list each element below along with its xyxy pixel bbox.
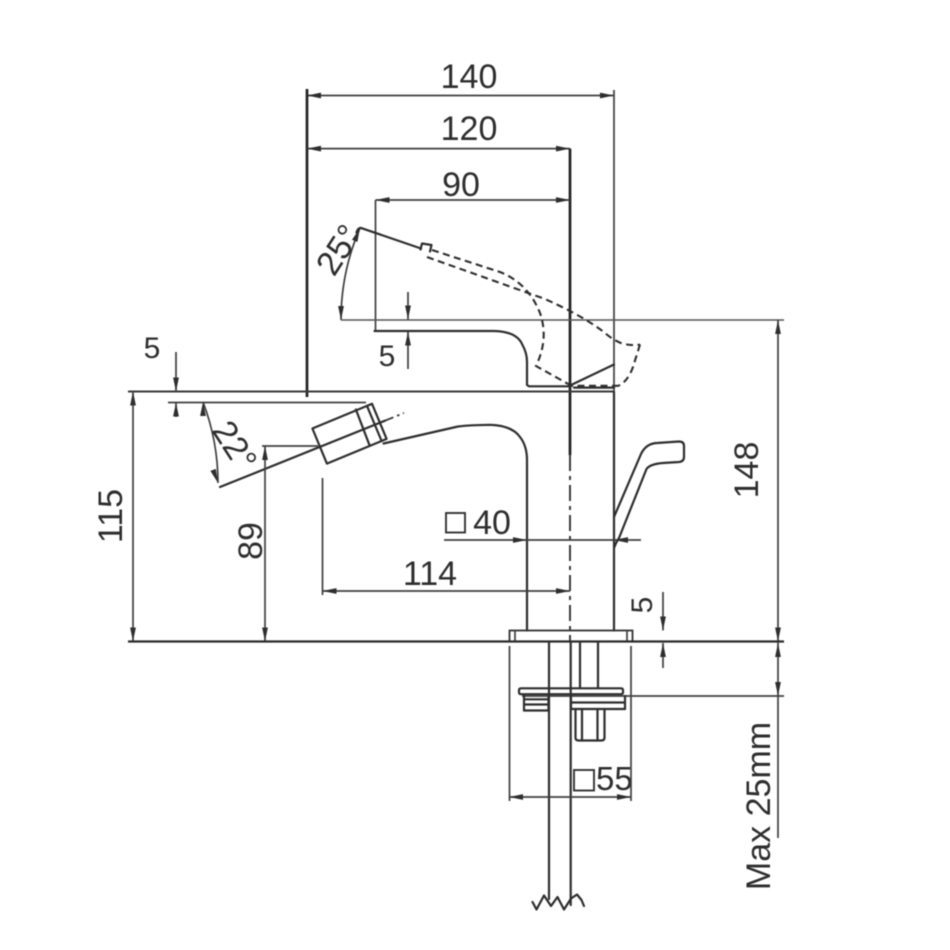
square 40 label	[444, 504, 641, 543]
spout axis leg line (22 deg)	[220, 421, 385, 487]
svg-text:90: 90	[442, 166, 480, 204]
threaded stud left	[579, 642, 581, 688]
dimension Max 25mm	[740, 642, 781, 890]
svg-text:89: 89	[232, 522, 270, 560]
supply shank pipe right edge	[570, 642, 572, 905]
dimension 89	[232, 446, 270, 642]
dimension 90	[376, 166, 571, 204]
aerator body (tilted box)	[312, 404, 386, 464]
svg-text:Max 25mm: Max 25mm	[740, 722, 778, 890]
lever raised end face (dashed)	[619, 345, 640, 386]
aerator cap seam	[356, 410, 370, 446]
svg-text:148: 148	[728, 442, 766, 499]
svg-text:114: 114	[403, 555, 457, 593]
extension line y=446 (89 reference)	[262, 445, 318, 447]
pipe break squiggle	[533, 895, 585, 910]
deck / mounting surface line	[128, 640, 784, 642]
dimension 115	[92, 392, 136, 642]
body right edge (lower view)	[613, 392, 615, 631]
lever handle top edge (solid, rest position)	[357, 228, 422, 249]
horseshoe washer	[519, 688, 623, 694]
lever button notch	[421, 244, 432, 252]
square 55 label	[574, 760, 633, 797]
svg-text:40: 40	[473, 504, 511, 542]
svg-text:5: 5	[379, 340, 396, 373]
extension line lever tip (x=375.5)	[375, 200, 377, 331]
extension line left (aerator tip reference x=307)	[306, 89, 309, 397]
lever raised bottom line (dashed)	[568, 385, 619, 387]
reference line y=320 (spout height 148 reference)	[341, 319, 784, 321]
extension line centerline top (x=570)	[569, 149, 572, 455]
mounting nut	[576, 709, 605, 741]
lever solid bottom profile (flat blade and corner into body)	[375, 331, 571, 386]
body top edge right segment	[574, 387, 614, 389]
dimension 148	[728, 320, 781, 642]
svg-text:5: 5	[626, 597, 659, 614]
supply shank pipe left edge	[548, 642, 550, 899]
angle dimension 25 deg arc	[309, 218, 369, 320]
centerline (dash-dot) of faucet body	[569, 455, 571, 642]
bidet spout top profile into body left edge	[384, 425, 528, 631]
lever raised outline bottom edge (dashed)	[427, 257, 640, 345]
mounting plate	[510, 631, 633, 642]
clamp block left	[524, 696, 549, 711]
dimension 120	[307, 110, 570, 152]
body top chamfer right (solid V arm)	[570, 365, 614, 386]
reference line y=402 (aerator top corner extension)	[168, 402, 366, 404]
dimension 55 line	[509, 646, 631, 801]
reference line y=391.5 (spout outlet top, 115 reference)	[128, 391, 614, 393]
threaded stud right	[597, 642, 599, 688]
washer underside reference line y=696	[522, 695, 784, 697]
spout axis centerline continuation (dash-dot)	[385, 413, 404, 421]
dimension 114	[323, 478, 571, 595]
dimension 140	[307, 58, 614, 98]
dimension 5 (plate thickness)	[626, 592, 666, 668]
aerator end rim	[367, 404, 387, 441]
dimension 5 (top left, aerator offset)	[144, 332, 179, 417]
svg-text:55: 55	[596, 760, 633, 797]
svg-text:120: 120	[441, 110, 498, 148]
angle dimension 22 deg arc	[200, 402, 264, 483]
svg-text:115: 115	[92, 489, 130, 543]
clamp block right	[571, 696, 625, 709]
back handle (lower view)	[614, 442, 684, 548]
svg-text:140: 140	[441, 58, 498, 96]
lever raised outline top edge (dashed)	[432, 250, 570, 385]
svg-text:5: 5	[144, 332, 161, 365]
extension line right (body right edge x=614)	[613, 90, 615, 392]
dimension 5 (top middle, lever offset)	[379, 292, 411, 373]
